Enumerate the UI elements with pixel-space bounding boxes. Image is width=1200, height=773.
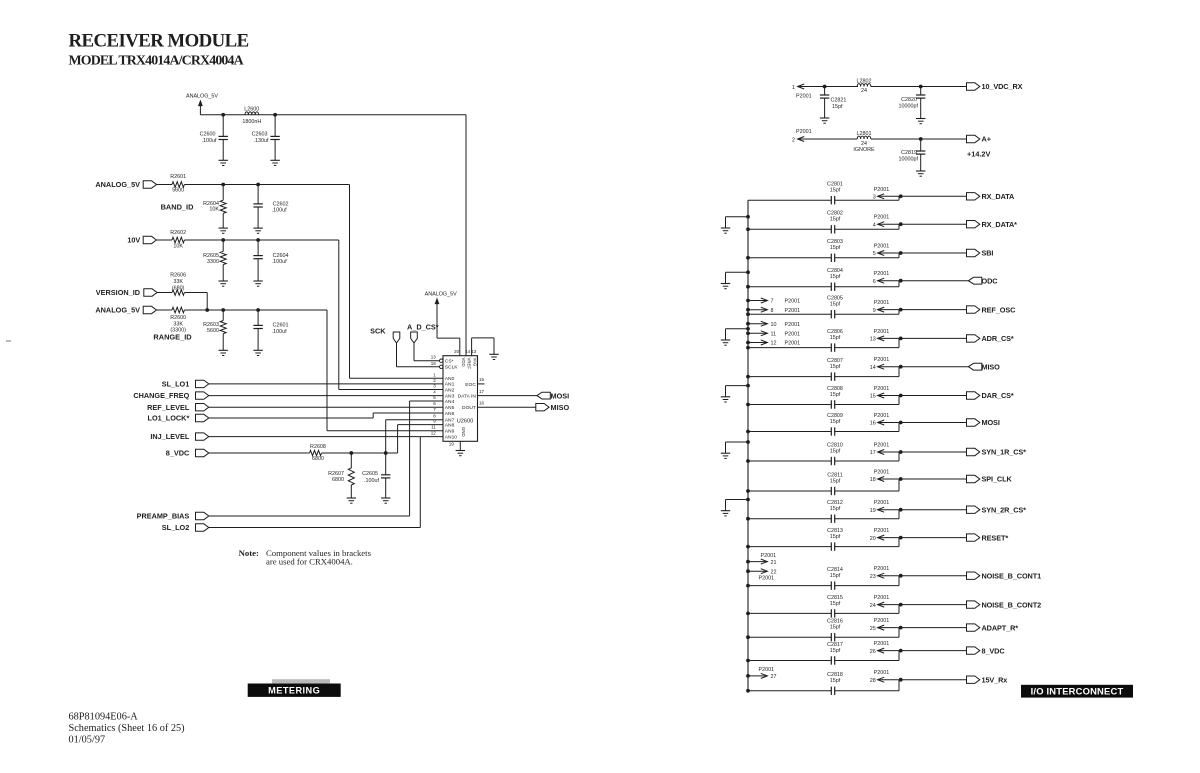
svg-text:10000pf: 10000pf (899, 157, 919, 163)
svg-text:3300: 3300 (207, 259, 219, 265)
node junction MISO (899, 365, 903, 369)
svg-text:RX_DATA*: RX_DATA* (982, 220, 1018, 229)
svg-text:LO1_LOCK*: LO1_LOCK* (148, 414, 190, 423)
svg-text:15pf: 15pf (830, 534, 841, 540)
connector P2001 pin 12 stub (746, 341, 750, 345)
resistor R2601 (157, 184, 172, 186)
svg-text:SPI_CLK: SPI_CLK (982, 475, 1013, 484)
node bus junction C2809 (746, 430, 750, 434)
ground VAG (489, 353, 498, 355)
capacitor C2801 (830, 196, 832, 204)
wire LO1_LOCK* with jog to AN6 (209, 417, 373, 419)
svg-text:6800: 6800 (332, 477, 344, 483)
capacitor C2820 (920, 87, 922, 96)
svg-text:15pf: 15pf (830, 274, 841, 280)
svg-text:R2602: R2602 (170, 230, 186, 236)
ground C2604 (253, 280, 262, 282)
wire 8_VDC net (322, 452, 398, 454)
connector P2001 pin 10 stub (746, 322, 750, 326)
pin 18 SCLK (440, 365, 443, 368)
node BAND_ID junction R2604 (221, 183, 225, 187)
svg-text:C2603: C2603 (252, 131, 268, 137)
svg-text:15pf: 15pf (830, 245, 841, 251)
svg-text:P2001: P2001 (761, 553, 777, 559)
svg-text:NOISE_B_CONT2: NOISE_B_CONT2 (982, 600, 1042, 609)
svg-text:ADAPT_R*: ADAPT_R* (982, 623, 1019, 632)
svg-text:15pf: 15pf (830, 506, 841, 512)
connector P2001 pin 11 stub (746, 331, 750, 335)
svg-text:15: 15 (479, 377, 485, 382)
wire power rail (200, 114, 466, 116)
svg-text:4: 4 (433, 390, 436, 395)
connector SYN_1R_CS* (967, 448, 980, 455)
svg-text:10: 10 (771, 322, 777, 328)
svg-text:PREAMP_BIAS: PREAMP_BIAS (137, 512, 190, 521)
svg-text:15pf: 15pf (830, 188, 841, 194)
svg-text:21: 21 (771, 560, 777, 566)
wire SCK to SCLK pin (396, 343, 398, 367)
svg-text:15pf: 15pf (830, 392, 841, 398)
svg-text:25: 25 (870, 626, 876, 632)
svg-text:C2601: C2601 (273, 323, 289, 329)
svg-text:R2601: R2601 (170, 174, 186, 180)
wire BAND_ID net (184, 184, 349, 186)
wire MISO row (748, 376, 831, 378)
connector P2001 pin 7 stub (746, 299, 750, 303)
node junction ADR_CS* (899, 337, 903, 341)
svg-text:15pf: 15pf (830, 335, 841, 341)
svg-text:P2001: P2001 (874, 470, 890, 476)
svg-text:8_VDC: 8_VDC (166, 449, 190, 458)
svg-text:C2604: C2604 (273, 253, 289, 259)
wire BAND_ID drop to AN0 (349, 185, 351, 379)
svg-text:33K: 33K (173, 321, 183, 327)
svg-text:68P81094E06-A: 68P81094E06-A (69, 712, 139, 723)
svg-text:20: 20 (454, 349, 460, 354)
scan smudge above METERING (272, 679, 330, 683)
node bus junction C2807 (746, 375, 750, 379)
svg-text:24: 24 (861, 88, 867, 94)
node junction ODC (899, 279, 903, 283)
wire SPI_CLK row (748, 490, 831, 492)
METERING label (248, 684, 341, 697)
wire ground tap 4 (726, 385, 749, 387)
svg-text:DOUT: DOUT (462, 405, 476, 411)
svg-text:P2001: P2001 (785, 322, 801, 328)
svg-text:SL_LO1: SL_LO1 (162, 380, 190, 389)
svg-text:A_D_CS*: A_D_CS* (407, 323, 439, 332)
capacitor C2811 (830, 487, 832, 495)
connector ADAPT_R* (967, 624, 980, 631)
svg-text:R2606: R2606 (170, 273, 186, 279)
svg-text:.130uf: .130uf (254, 138, 269, 144)
svg-text:AN4: AN4 (445, 399, 455, 405)
svg-text:15pf: 15pf (830, 601, 841, 607)
connector RESET* (967, 534, 980, 541)
svg-text:12: 12 (431, 431, 437, 436)
wire A_D_CS* to CS* pin (413, 343, 415, 361)
node bus junction C2818 (746, 689, 750, 693)
svg-text:AN9: AN9 (445, 429, 455, 435)
node 10V junction C2604 (256, 238, 260, 242)
svg-text:12: 12 (771, 341, 777, 347)
svg-text:13: 13 (471, 349, 477, 354)
svg-text:AN3: AN3 (445, 393, 455, 399)
pin 13 CS* (440, 359, 443, 362)
connector P2001 pin 27 stub (746, 674, 750, 678)
svg-text:C2605: C2605 (362, 471, 378, 477)
svg-text:RESET*: RESET* (982, 533, 1009, 542)
svg-text:7: 7 (771, 299, 774, 305)
ground R2605 (219, 280, 228, 282)
node 8_VDC junction R2607 (349, 451, 353, 455)
wire 15V_Rx row (748, 690, 831, 692)
ground tap 3 (721, 339, 730, 341)
ground tap 1 (721, 227, 730, 229)
svg-text:AN2: AN2 (445, 387, 455, 393)
svg-text:24: 24 (870, 603, 876, 609)
svg-text:15pf: 15pf (830, 302, 841, 308)
svg-text:5600: 5600 (172, 188, 184, 194)
svg-text:ANALOG_5V: ANALOG_5V (425, 292, 457, 298)
svg-text:AN6: AN6 (445, 411, 455, 417)
svg-text:15pf: 15pf (830, 678, 841, 684)
wire VERSION_ID to RANGE_ID net (184, 292, 207, 294)
svg-text:P2001: P2001 (874, 329, 890, 335)
svg-text:P2001: P2001 (796, 93, 812, 99)
svg-text:P2001: P2001 (874, 300, 890, 306)
wire ODC row (748, 286, 831, 288)
node bus junction C2811 (746, 489, 750, 493)
svg-text:28: 28 (870, 678, 876, 684)
wire DOUT to MISO (478, 406, 536, 408)
ground C2603 (270, 159, 279, 161)
node bus junction C2806 (746, 346, 750, 350)
capacitor C2805 (830, 310, 832, 318)
svg-text:U2600: U2600 (457, 418, 473, 424)
connector MISO (536, 404, 549, 411)
svg-text:10V: 10V (127, 236, 140, 245)
svg-text:17: 17 (870, 450, 876, 456)
node junction MOSI (899, 421, 903, 425)
ground C2819 (916, 170, 925, 172)
wire VDD (437, 337, 460, 339)
svg-text:P2001: P2001 (759, 576, 775, 582)
svg-text:3: 3 (873, 195, 876, 201)
svg-text:20: 20 (870, 536, 876, 542)
svg-text:15V_Rx: 15V_Rx (982, 675, 1008, 684)
connector MOSI (537, 392, 550, 399)
wire 8_VDC rise to AN7 (385, 420, 387, 453)
svg-text:I/O INTERCONNECT: I/O INTERCONNECT (1031, 686, 1124, 697)
svg-text:15pf: 15pf (830, 448, 841, 454)
node junction NOISE_B_CONT1 (899, 574, 903, 578)
svg-text:C2600: C2600 (200, 131, 216, 137)
svg-text:15pf: 15pf (830, 419, 841, 425)
node junction RX_DATA* (899, 222, 903, 226)
svg-text:6: 6 (433, 401, 436, 406)
wire RANGE_ID drop to AN9 (326, 310, 328, 431)
node junction NOISE_B_CONT2 (899, 603, 903, 607)
svg-text:P2001: P2001 (796, 129, 812, 135)
connector NOISE_B_CONT1 (967, 572, 980, 579)
svg-text:P2001: P2001 (874, 641, 890, 647)
wire NOISE_B_CONT1 row (748, 585, 831, 587)
wire P2001-1 to L2802 (798, 86, 858, 88)
node rail junction 2 (273, 113, 277, 117)
svg-text:MISO: MISO (551, 403, 570, 412)
svg-text:1: 1 (433, 372, 436, 377)
capacitor C2815 (830, 609, 832, 617)
svg-text:P2001: P2001 (874, 528, 890, 534)
wire SYN_1R_CS* row (748, 460, 831, 462)
svg-text:R2600: R2600 (170, 315, 186, 321)
capacitor C2803 (830, 254, 832, 262)
ground R2604 (219, 227, 228, 229)
svg-text:L2600: L2600 (244, 106, 259, 112)
svg-text:VERSION_ID: VERSION_ID (96, 288, 140, 297)
svg-text:MISO: MISO (982, 362, 1001, 371)
svg-text:26: 26 (870, 649, 876, 655)
svg-text:P2001: P2001 (874, 413, 890, 419)
ground C2821 (820, 117, 829, 119)
svg-text:P2001: P2001 (874, 386, 890, 392)
wire VAG to ground (471, 338, 473, 356)
svg-text:1800nH: 1800nH (242, 119, 261, 125)
svg-text:15pf: 15pf (830, 364, 841, 370)
wire SYN_2R_CS* row (748, 518, 831, 520)
pin 15 EOC (478, 383, 485, 385)
svg-text:17: 17 (479, 389, 485, 394)
svg-text:8_VDC: 8_VDC (982, 646, 1006, 655)
connector A+ (967, 135, 980, 142)
svg-text:VREF: VREF (467, 358, 472, 370)
svg-text:C2821: C2821 (831, 98, 847, 104)
svg-text:SL_LO2: SL_LO2 (162, 523, 190, 532)
svg-text:AN0: AN0 (445, 376, 455, 382)
svg-text:15pf: 15pf (830, 478, 841, 484)
svg-text:.100uf: .100uf (272, 259, 287, 265)
wire RESET* row (748, 546, 831, 548)
svg-text:10000pf: 10000pf (899, 104, 919, 110)
resistor R2602 (157, 239, 172, 241)
svg-text:VAG: VAG (473, 358, 478, 367)
node junction SPI_CLK (899, 477, 903, 481)
wire P2001-2 to L2801 (798, 138, 858, 140)
wire PREAMP_BIAS rise to AN4 (209, 515, 410, 517)
svg-text:10K: 10K (209, 207, 219, 213)
capacitor C2605 (385, 453, 387, 475)
capacitor C2817 (830, 656, 832, 664)
svg-text:CHANGE_FREQ: CHANGE_FREQ (133, 391, 189, 400)
svg-text:6800: 6800 (312, 456, 324, 462)
capacitor C2821 (824, 87, 826, 96)
svg-text:are used for CRX4004A.: are used for CRX4004A. (266, 557, 353, 567)
svg-text:18: 18 (870, 477, 876, 483)
wire VREF drop to U2600 (465, 115, 467, 356)
svg-text:MOSI: MOSI (551, 391, 570, 400)
svg-text:C2819: C2819 (901, 150, 917, 156)
node junction 8_VDC (899, 649, 903, 653)
wire SBI row (748, 257, 831, 259)
node bus junction C2814 (746, 584, 750, 588)
svg-text:ODC: ODC (982, 276, 999, 285)
wire 8_VDC row (748, 660, 831, 662)
svg-text:SCLK: SCLK (445, 365, 459, 371)
connector 8_VDC (967, 647, 980, 654)
svg-text:1: 1 (792, 85, 795, 91)
connector P2001 pin 22 stub (746, 569, 750, 573)
svg-text:REF_OSC: REF_OSC (982, 305, 1017, 314)
wire SL_LO2 rise to AN10 (209, 527, 420, 529)
svg-text:EOC: EOC (465, 382, 476, 388)
svg-text:4: 4 (873, 222, 876, 228)
ground tap 4 (721, 396, 730, 398)
svg-text:P2001: P2001 (785, 308, 801, 314)
ground tap 2 (721, 283, 730, 285)
wire 10V drop to AN2 (338, 240, 340, 390)
svg-text:MODEL TRX4014A/CRX4004A: MODEL TRX4014A/CRX4004A (69, 54, 244, 69)
svg-text:RECEIVER MODULE: RECEIVER MODULE (69, 31, 249, 52)
node bus junction C2804 (746, 285, 750, 289)
connector 10_VDC_RX (967, 83, 980, 90)
ground R2603 (219, 349, 228, 351)
svg-text:2: 2 (792, 137, 795, 143)
svg-text:P2001: P2001 (785, 332, 801, 338)
capacitor C2604 (257, 240, 259, 256)
svg-text:01/05/97: 01/05/97 (69, 735, 106, 746)
wire NOISE_B_CONT2 row (748, 612, 831, 614)
svg-text:16: 16 (870, 421, 876, 427)
node BAND_ID junction C2602 (256, 183, 260, 187)
node bus junction C2813 (746, 545, 750, 549)
svg-text:19: 19 (870, 508, 876, 514)
svg-text:Schematics (Sheet 16 of 25): Schematics (Sheet 16 of 25) (69, 723, 185, 734)
wire REF_LEVEL (209, 406, 443, 408)
node junction ADAPT_R* (899, 626, 903, 630)
connector P2001 pin 8 stub (746, 308, 750, 312)
node junction C2820 (919, 85, 923, 89)
connector RX_DATA* (967, 221, 980, 228)
node RANGE_ID junction R2603 (221, 308, 225, 312)
ground C2600 (219, 159, 228, 161)
svg-text:DATA IN: DATA IN (458, 394, 477, 400)
connector SYN_2R_CS* (967, 506, 980, 513)
wire INJ_LEVEL (209, 436, 420, 438)
svg-text:16: 16 (479, 401, 485, 406)
node junction DAR_CS* (899, 394, 903, 398)
svg-text:ANALOG_5V: ANALOG_5V (95, 306, 140, 315)
svg-text:ANALOG_5V: ANALOG_5V (95, 180, 140, 189)
svg-text:VDD: VDD (461, 358, 466, 367)
svg-text:8: 8 (771, 308, 774, 314)
svg-text:13: 13 (870, 337, 876, 343)
svg-text:BAND_ID: BAND_ID (161, 202, 195, 211)
connector MISO (969, 363, 982, 370)
svg-text:SBI: SBI (982, 249, 994, 258)
svg-text:RX_DATA: RX_DATA (982, 192, 1016, 201)
capacitor C2809 (830, 427, 832, 435)
svg-text:27: 27 (771, 674, 777, 680)
node junction RX_DATA (899, 194, 903, 198)
svg-text:METERING: METERING (268, 686, 320, 696)
svg-text:11: 11 (771, 332, 777, 338)
svg-text:P2001: P2001 (785, 341, 801, 347)
wire DATA IN to MOSI (478, 395, 538, 397)
ground R2607 (347, 497, 356, 499)
ground tap 6 (721, 510, 730, 512)
connector RX_DATA (967, 193, 980, 200)
wire RX_DATA row (748, 199, 831, 201)
node bus junction C2802 (746, 227, 750, 231)
svg-text:15pf: 15pf (832, 104, 843, 110)
svg-text:.100uf: .100uf (202, 138, 217, 144)
svg-text:AN10: AN10 (445, 434, 458, 440)
capacitor C2813 (830, 542, 832, 550)
svg-text:RANGE_ID: RANGE_ID (153, 333, 192, 342)
wire L2802 to output (871, 86, 967, 88)
svg-text:15pf: 15pf (830, 217, 841, 223)
ground C2602 (253, 227, 262, 229)
svg-text:24: 24 (861, 141, 867, 147)
svg-text:15: 15 (870, 394, 876, 400)
svg-text:19: 19 (449, 442, 455, 447)
wire RANGE_ID net (184, 309, 327, 311)
svg-text:ADR_CS*: ADR_CS* (982, 334, 1014, 343)
capacitor C2816 (830, 633, 832, 641)
wire CHANGE_FREQ (209, 395, 443, 397)
connector 15V_Rx (967, 676, 980, 683)
svg-text:NOISE_B_CONT1: NOISE_B_CONT1 (982, 571, 1042, 580)
svg-text:DAR_CS*: DAR_CS* (982, 391, 1014, 400)
connector MOSI (967, 419, 980, 426)
svg-text:SYN_2R_CS*: SYN_2R_CS* (982, 505, 1027, 514)
svg-text:P2001: P2001 (874, 670, 890, 676)
svg-text:14: 14 (870, 365, 876, 371)
svg-text:7: 7 (433, 407, 436, 412)
svg-text:P2001: P2001 (874, 618, 890, 624)
svg-text:15pf: 15pf (830, 573, 841, 579)
connector SPI_CLK (967, 475, 980, 482)
wire L2801 to output (871, 138, 967, 140)
capacitor C2807 (830, 372, 832, 380)
svg-text:9: 9 (873, 308, 876, 314)
svg-text:33K: 33K (173, 279, 183, 285)
node junction RESET* (899, 536, 903, 540)
capacitor C2602 (257, 185, 259, 204)
capacitor C2802 (830, 225, 832, 233)
node bus junction C2816 (746, 635, 750, 639)
wire REF_OSC row (748, 313, 831, 315)
svg-text:P2001: P2001 (874, 271, 890, 277)
svg-text:10K: 10K (173, 244, 183, 250)
svg-text:.100uf: .100uf (364, 478, 379, 484)
svg-text:5600: 5600 (207, 328, 219, 334)
svg-text:GND: GND (461, 427, 466, 437)
svg-text:5: 5 (873, 251, 876, 257)
wire P2001 bypass bus (747, 200, 749, 691)
capacitor C2814 (830, 581, 832, 589)
wire ground tap 2 (726, 271, 749, 273)
svg-text:P2001: P2001 (874, 244, 890, 250)
resistor R2608 (209, 452, 310, 454)
svg-text:REF_LEVEL: REF_LEVEL (147, 403, 190, 412)
wire ground tap 5 (726, 441, 749, 443)
svg-text:11: 11 (431, 425, 436, 430)
svg-text:C2602: C2602 (273, 201, 289, 207)
wire DAR_CS* row (748, 404, 831, 406)
svg-text:18: 18 (431, 361, 437, 366)
